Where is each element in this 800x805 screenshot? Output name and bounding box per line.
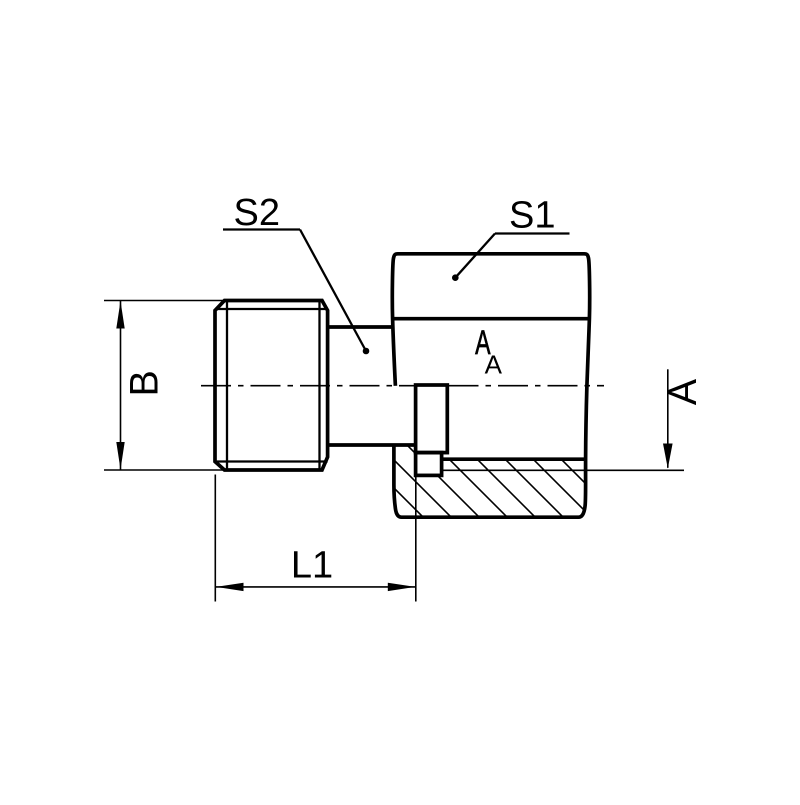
svg-text:A: A: [485, 349, 503, 379]
svg-text:L1: L1: [291, 544, 333, 586]
svg-text:B: B: [122, 370, 166, 396]
female thread minor line: [442, 457, 586, 461]
dim A arrow down: [663, 444, 673, 469]
port bore rectangle: [416, 385, 448, 453]
male thread minor line right: [318, 301, 320, 471]
hex body outline: [392, 254, 589, 517]
dim L1 line: [216, 586, 415, 588]
male thread outer outline: [215, 301, 328, 471]
pilot bore rectangle: [416, 453, 442, 476]
label S1 leader dot: [452, 274, 459, 281]
dim B arrow down: [116, 442, 124, 470]
svg-text:S2: S2: [234, 192, 280, 234]
male thread minor line top: [215, 308, 328, 310]
dim B line: [120, 301, 122, 470]
male thread minor line bottom: [215, 460, 328, 462]
neck top edge: [328, 325, 394, 329]
label S2 underline: [223, 228, 300, 230]
dim L1 extension right: [415, 476, 417, 602]
dim L1 arrow left: [216, 583, 244, 591]
centerline: [201, 385, 604, 387]
female thread major line and dim A extension: [442, 469, 684, 471]
dim L1 extension left: [214, 475, 216, 602]
dim L1 arrow right: [388, 583, 416, 591]
neck bottom edge: [328, 443, 416, 447]
dim B extension top: [104, 300, 223, 302]
hatching: [348, 442, 622, 520]
svg-text:S1: S1: [509, 195, 555, 237]
label S2 leader: [300, 230, 366, 352]
svg-text:A: A: [661, 378, 705, 405]
dim B arrow up: [116, 301, 124, 329]
dim B extension bottom: [104, 469, 223, 471]
hex facet line: [393, 317, 590, 321]
label S1 leader: [455, 234, 495, 278]
label S1 underline: [495, 232, 570, 234]
male thread minor line left: [226, 301, 228, 471]
dim A line: [667, 369, 669, 468]
label S2 leader dot: [363, 348, 370, 355]
